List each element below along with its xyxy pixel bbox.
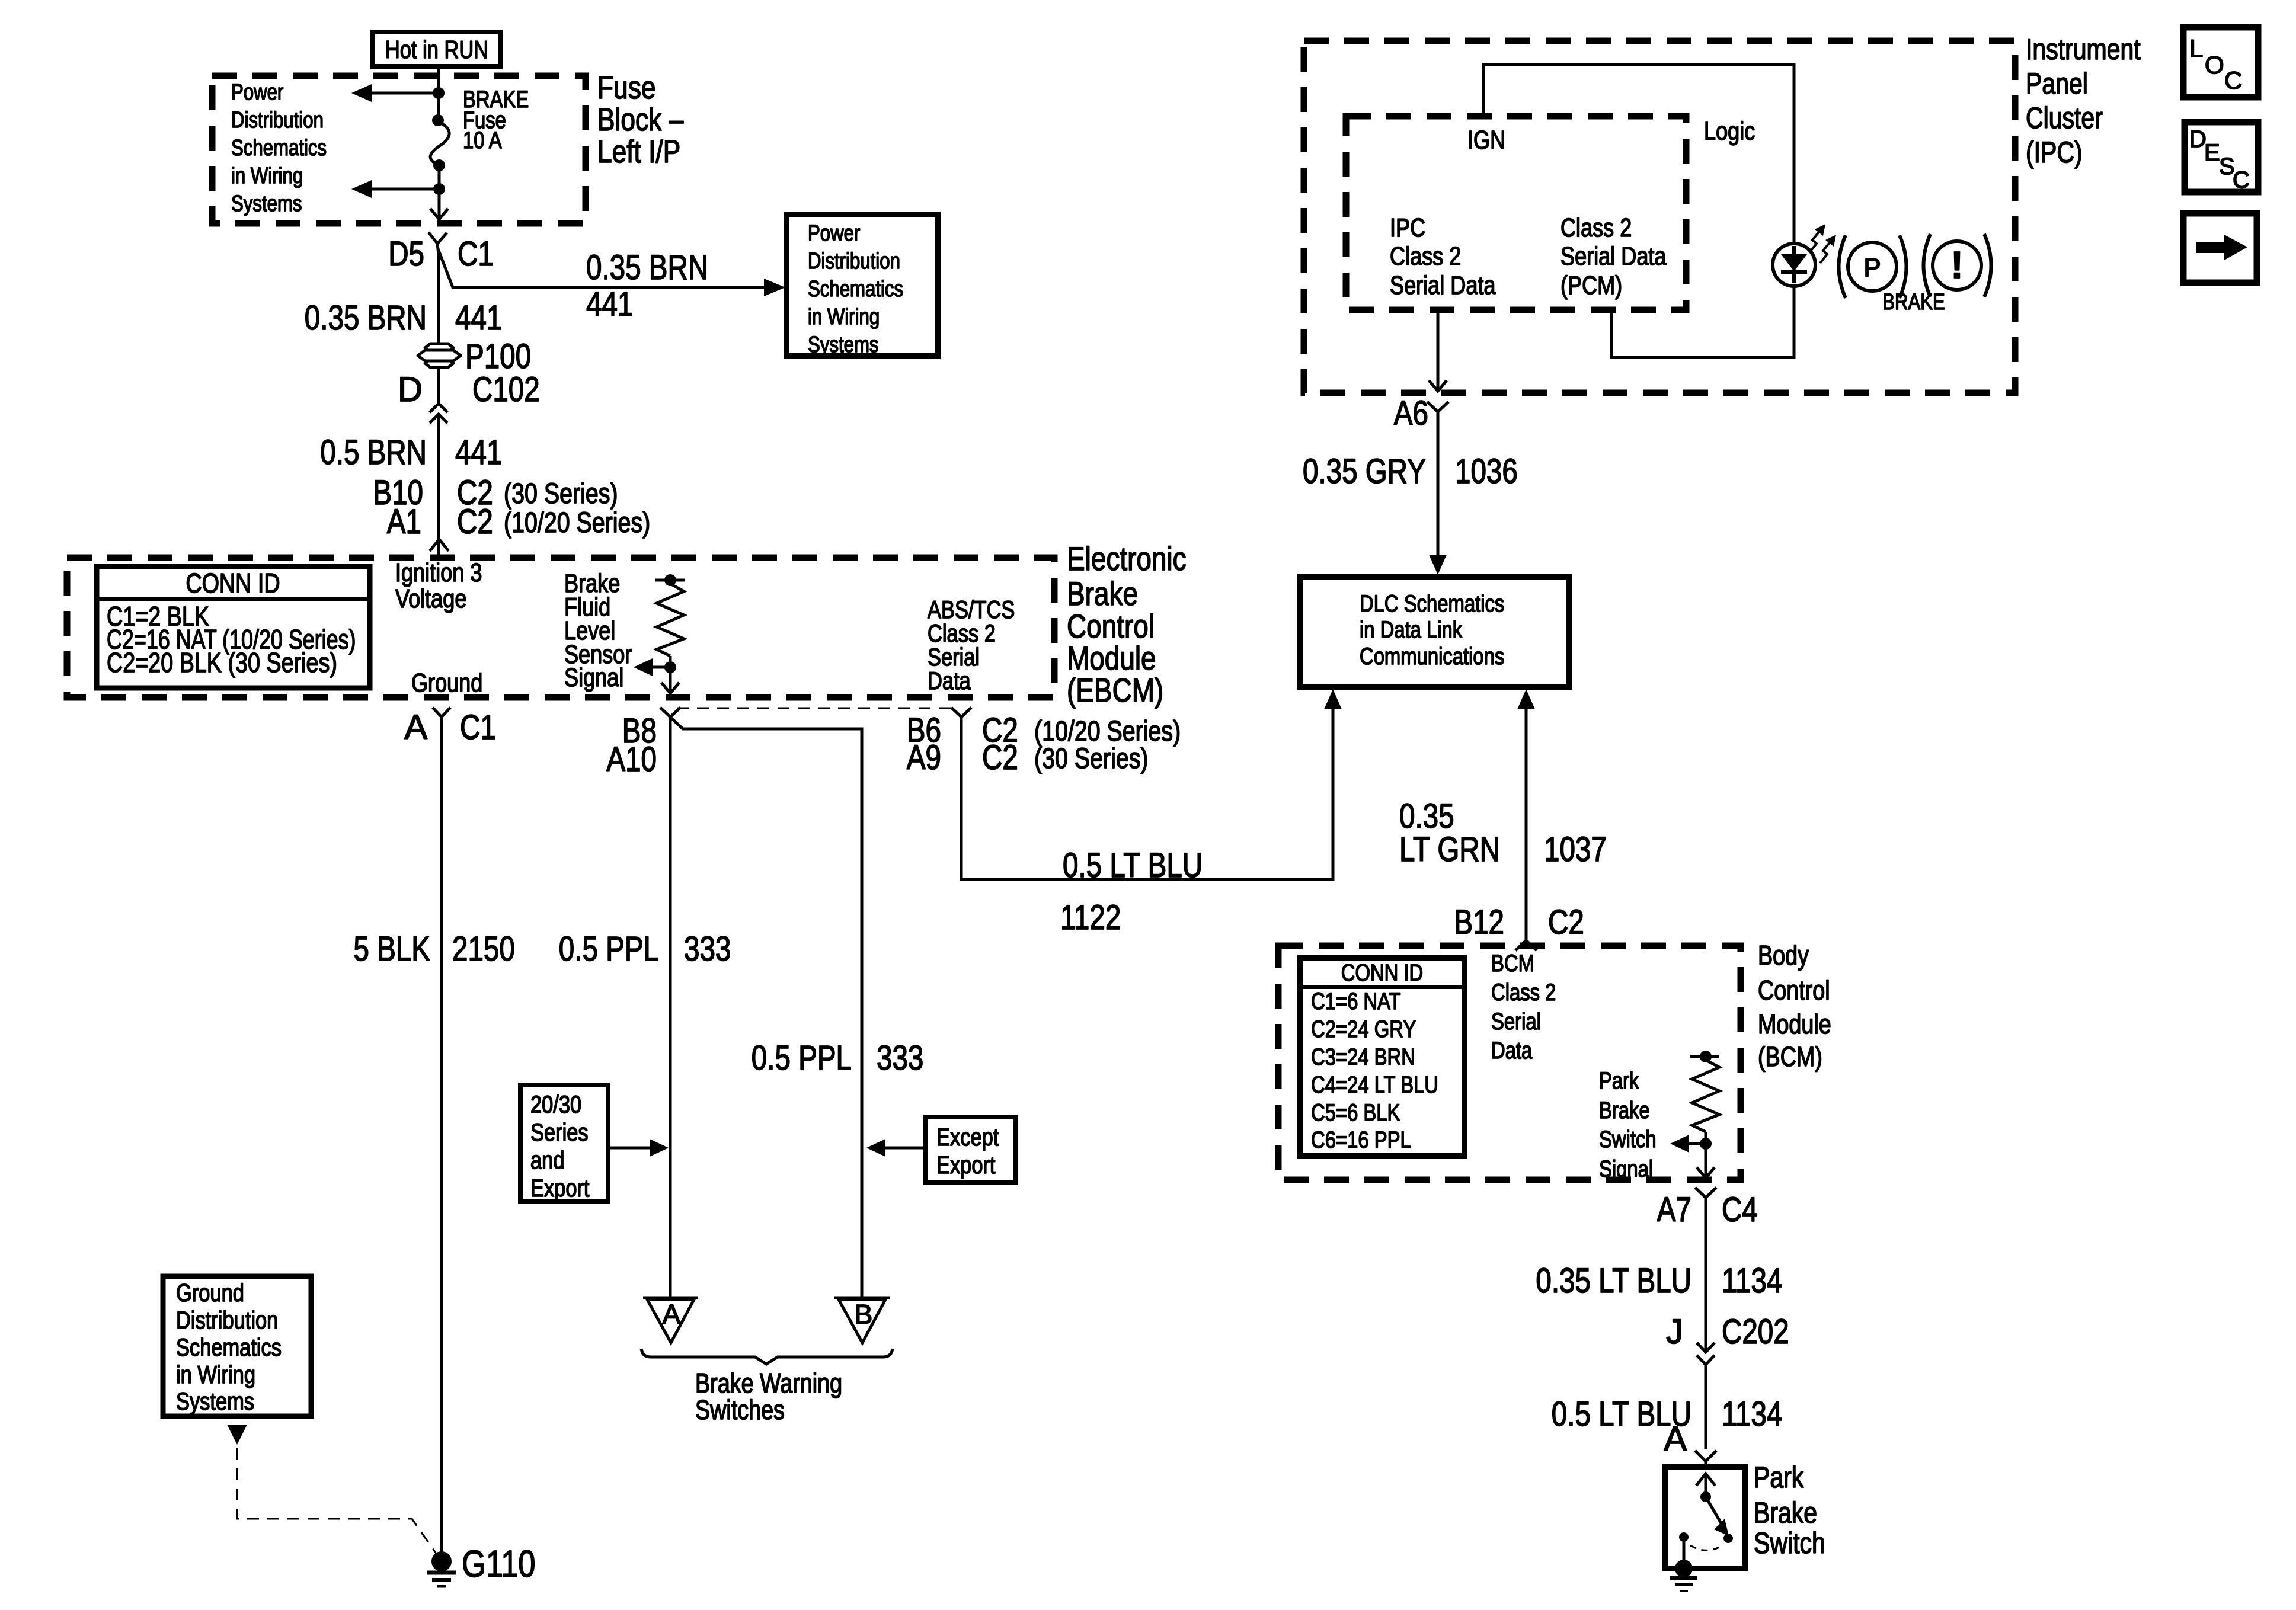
connector B8/A10 — [606, 708, 680, 779]
EBCM module label — [1067, 540, 1187, 709]
svg-text:Body: Body — [1758, 940, 1809, 971]
BCM dashed module box — [1278, 946, 1741, 1180]
svg-text:Fuse: Fuse — [597, 70, 656, 105]
svg-text:1037: 1037 — [1544, 830, 1607, 869]
svg-text:Electronic: Electronic — [1067, 540, 1187, 577]
Hot in RUN label box — [373, 32, 500, 66]
svg-text:Control: Control — [1758, 975, 1830, 1006]
connector C102 double chevron — [430, 404, 447, 423]
svg-text:B: B — [855, 1299, 873, 1330]
svg-text:G110: G110 — [462, 1542, 536, 1585]
svg-text:(BCM): (BCM) — [1758, 1041, 1822, 1072]
arrow from 20/30 box to wire A — [608, 1139, 669, 1157]
dashed ground reference path — [237, 1448, 439, 1558]
svg-text:Serial Data: Serial Data — [1560, 242, 1667, 271]
0.35 LT BLU 1134 labels — [1536, 1262, 1782, 1300]
Power Distribution Schematics note (inside fuse block) — [231, 80, 327, 216]
svg-text:D5: D5 — [388, 235, 424, 273]
svg-text:333: 333 — [684, 930, 731, 968]
svg-text:Brake: Brake — [1754, 1496, 1817, 1529]
connector A/C1 (ground) — [404, 708, 495, 747]
B10 C2 (30 Series) labels — [373, 473, 618, 512]
svg-text:Systems: Systems — [231, 191, 302, 216]
svg-text:Switch: Switch — [1599, 1126, 1657, 1153]
svg-text:DLC Schematics: DLC Schematics — [1360, 591, 1504, 617]
wire A6 to DLC (0.35 GRY 1036) — [1429, 412, 1447, 575]
svg-text:Export: Export — [530, 1174, 590, 1202]
svg-text:0.35 LT BLU: 0.35 LT BLU — [1536, 1262, 1691, 1300]
svg-text:LT GRN: LT GRN — [1399, 830, 1500, 869]
svg-text:and: and — [530, 1146, 565, 1174]
svg-text:A6: A6 — [1394, 394, 1428, 433]
switch closed-position contact — [1679, 1532, 1689, 1566]
svg-text:A7: A7 — [1657, 1190, 1691, 1229]
svg-text:C2=24 GRY: C2=24 GRY — [1311, 1016, 1416, 1042]
svg-text:C3=24 BRN: C3=24 BRN — [1311, 1044, 1415, 1070]
park brake switch signal arrow — [1670, 1135, 1706, 1153]
svg-text:0.5 PPL: 0.5 PPL — [752, 1039, 852, 1077]
svg-text:Hot in RUN: Hot in RUN — [385, 36, 488, 63]
svg-text:Distribution: Distribution — [808, 249, 900, 274]
svg-text:O: O — [2205, 51, 2224, 79]
0.5 BRN 441 labels — [320, 433, 502, 472]
svg-text:C6=16 PPL: C6=16 PPL — [1311, 1127, 1411, 1153]
20/30 Series and Export box — [520, 1085, 608, 1202]
svg-text:1134: 1134 — [1722, 1395, 1782, 1433]
svg-text:C4: C4 — [1722, 1190, 1758, 1229]
branch wire to switch B — [671, 718, 862, 1299]
wire from Hot in RUN into fuse block — [437, 66, 440, 119]
svg-text:C1: C1 — [460, 708, 496, 747]
arrow to power distribution (upper) — [351, 84, 439, 102]
arrow down to EBCM edge — [661, 667, 679, 693]
svg-text:in Wiring: in Wiring — [176, 1361, 255, 1388]
svg-text:D: D — [398, 370, 423, 409]
svg-text:Signal: Signal — [564, 663, 623, 692]
LED emission arrows — [1809, 224, 1836, 263]
svg-text:Switch: Switch — [1754, 1526, 1825, 1560]
svg-text:Class 2: Class 2 — [1390, 242, 1461, 271]
0.5 PPL 333 labels (wire B) — [752, 1039, 924, 1077]
0.35 BRN 441 wire labels — [305, 299, 503, 337]
connector B6/A9 — [907, 708, 1181, 777]
svg-text:A9: A9 — [907, 738, 941, 777]
P100 grommet connector — [418, 337, 531, 376]
fuse BRAKE 10A symbol — [430, 114, 449, 171]
svg-text:(10/20 Series): (10/20 Series) — [504, 507, 650, 539]
svg-text:Brake: Brake — [1067, 575, 1138, 612]
junction node (top) — [433, 87, 445, 99]
switch pivot and blade — [1700, 1491, 1733, 1543]
svg-text:0.35 GRY: 0.35 GRY — [1303, 452, 1426, 491]
svg-text:Serial: Serial — [1491, 1009, 1541, 1035]
svg-text:0.35 BRN: 0.35 BRN — [586, 248, 708, 287]
sensor signal arrow — [634, 658, 670, 676]
svg-text:C2: C2 — [457, 502, 493, 541]
0.5 LT BLU 1122 labels — [1060, 846, 1203, 937]
svg-text:0.5 LT BLU: 0.5 LT BLU — [1063, 846, 1203, 885]
Fuse Block module label — [597, 70, 683, 169]
park brake telltale ((P)) — [1839, 235, 1907, 298]
svg-text:10 A: 10 A — [463, 127, 502, 153]
svg-text:L: L — [2189, 34, 2203, 62]
svg-text:Instrument: Instrument — [2026, 33, 2141, 66]
svg-text:Systems: Systems — [176, 1387, 254, 1415]
svg-text:2150: 2150 — [452, 930, 515, 968]
5 BLK 2150 labels — [353, 930, 514, 968]
svg-text:(30 Series): (30 Series) — [504, 478, 618, 510]
svg-text:Module: Module — [1758, 1009, 1831, 1039]
connector chevron into EBCM — [430, 539, 449, 551]
svg-text:in Wiring: in Wiring — [231, 164, 303, 188]
branch wire to power distribution box — [438, 249, 785, 296]
connector A (park brake switch) — [1664, 1420, 1716, 1469]
switch ground node — [1675, 1560, 1693, 1577]
ground G110 symbol — [427, 1551, 456, 1586]
svg-text:20/30: 20/30 — [530, 1090, 581, 1118]
svg-text:Distribution: Distribution — [231, 108, 324, 133]
Fuse Block - Left I/P dashed box — [212, 76, 586, 223]
svg-text:Class 2: Class 2 — [1491, 980, 1556, 1006]
svg-text:B12: B12 — [1454, 903, 1504, 942]
Except Export box — [926, 1117, 1015, 1183]
svg-text:Power: Power — [231, 80, 284, 105]
svg-text:CONN ID: CONN ID — [186, 568, 280, 598]
svg-text:C1: C1 — [458, 235, 494, 273]
svg-text:Export: Export — [936, 1151, 996, 1179]
svg-text:C2=20 BLK (30 Series): C2=20 BLK (30 Series) — [107, 647, 337, 678]
wire from PCM to LED branch — [1611, 286, 1794, 357]
wire below P100 — [437, 368, 440, 404]
svg-text:(30 Series): (30 Series) — [1034, 743, 1149, 774]
svg-text:in Data Link: in Data Link — [1360, 617, 1463, 643]
svg-text:C4=24 LT BLU: C4=24 LT BLU — [1311, 1072, 1438, 1098]
svg-text:Ground: Ground — [176, 1279, 244, 1307]
wire B12 to DLC (0.35 LT GRN 1037) — [1517, 689, 1535, 940]
svg-text:C2: C2 — [1548, 903, 1584, 942]
wire down from D5/C1 — [437, 255, 440, 344]
park brake pull-up resistor — [1690, 1051, 1719, 1150]
svg-text:333: 333 — [877, 1039, 923, 1077]
svg-text:Cluster: Cluster — [2026, 101, 2103, 135]
BCM CONN ID table — [1300, 958, 1464, 1156]
brake warning telltale ((!)) — [1924, 234, 1991, 297]
wire A (brake warning switch A) — [669, 717, 672, 1299]
arrow legend box — [2183, 213, 2257, 283]
wire B6/A9 to DLC (0.5 LT BLU 1122) — [961, 689, 1342, 879]
0.35 LT GRN 1037 labels — [1399, 797, 1607, 869]
svg-text:Ground: Ground — [411, 668, 482, 697]
svg-text:C202: C202 — [1722, 1313, 1789, 1351]
svg-text:Panel: Panel — [2026, 67, 2088, 100]
svg-text:Communications: Communications — [1360, 644, 1504, 670]
svg-text:Left I/P: Left I/P — [597, 134, 680, 169]
wire below fuse — [438, 165, 441, 217]
svg-text:Serial Data: Serial Data — [1390, 271, 1496, 300]
svg-text:441: 441 — [455, 299, 502, 337]
svg-text:(IPC): (IPC) — [2026, 136, 2083, 169]
svg-text:441: 441 — [455, 433, 502, 472]
svg-text:BRAKE: BRAKE — [1882, 290, 1945, 315]
BCM module label — [1758, 940, 1831, 1072]
svg-text:Data: Data — [1491, 1038, 1533, 1064]
svg-text:C: C — [2224, 66, 2242, 94]
svg-text:Brake: Brake — [1599, 1097, 1650, 1124]
Brake Warning Switches label — [695, 1368, 842, 1425]
Power Distribution Schematics box — [786, 215, 938, 357]
svg-text:A: A — [1664, 1420, 1687, 1458]
svg-text:C: C — [2233, 167, 2250, 193]
svg-text:!: ! — [1950, 244, 1963, 286]
svg-text:0.5 PPL: 0.5 PPL — [559, 930, 659, 968]
IPC dashed module box — [1304, 41, 2015, 393]
connector D5/C1 — [428, 232, 447, 255]
wire A7 to C202 (0.35 LT BLU 1134) — [1705, 1198, 1707, 1352]
connector A6 — [1394, 394, 1448, 433]
A6 wire exit from IPC — [1429, 310, 1447, 391]
EBCM dashed module box — [67, 558, 1054, 697]
svg-text:0.5 BRN: 0.5 BRN — [320, 433, 427, 472]
svg-text:P: P — [1863, 253, 1881, 282]
arrowhead down at fuse block exit — [430, 209, 448, 219]
Park Brake Switch label — [1754, 1461, 1825, 1560]
svg-text:Schematics: Schematics — [231, 136, 327, 161]
switch travel dashed arc — [1690, 1545, 1723, 1550]
svg-text:(PCM): (PCM) — [1560, 271, 1622, 300]
ABS/TCS Class 2 Serial Data pin label — [928, 596, 1015, 694]
IPC Class 2 Serial Data label — [1390, 213, 1496, 300]
D / C102 labels — [398, 370, 540, 409]
BCM Class 2 Serial Data pin label — [1491, 950, 1556, 1064]
svg-text:1036: 1036 — [1455, 452, 1518, 491]
switch common contact wire with up arrow — [1696, 1474, 1715, 1497]
svg-text:A1: A1 — [387, 502, 421, 541]
svg-text:Ignition 3: Ignition 3 — [395, 558, 482, 587]
svg-text:A: A — [404, 708, 427, 747]
Ground Distribution Schematics box — [163, 1276, 311, 1416]
IPC module label — [2026, 33, 2141, 169]
IGN to logic loop wire — [1483, 65, 1794, 244]
wire C202 to park brake switch (0.5 LT BLU 1134) — [1705, 1365, 1707, 1449]
connector A7/C4 — [1657, 1188, 1758, 1229]
svg-text:1134: 1134 — [1722, 1262, 1782, 1300]
svg-text:Schematics: Schematics — [176, 1333, 282, 1361]
Park Brake Switch Signal pin label — [1599, 1068, 1657, 1182]
svg-text:Data: Data — [928, 667, 971, 694]
svg-text:5 BLK: 5 BLK — [353, 930, 430, 968]
brake telltale LED — [1773, 244, 1815, 286]
off-page triangle B — [834, 1298, 890, 1343]
svg-text:Block –: Block – — [597, 102, 683, 137]
0.5 LT BLU 1134 labels — [1552, 1395, 1783, 1433]
svg-text:Power: Power — [808, 221, 861, 246]
svg-text:C2: C2 — [982, 738, 1018, 777]
Class 2 Serial Data (PCM) label — [1560, 213, 1667, 300]
svg-text:1122: 1122 — [1060, 898, 1121, 937]
svg-text:C102: C102 — [472, 370, 540, 409]
svg-text:Systems: Systems — [808, 332, 879, 357]
off-page triangle A — [643, 1298, 698, 1343]
brake fluid level sensor resistor — [655, 574, 685, 673]
thin dashed 10/20-series boundary — [677, 708, 951, 709]
ground wire 5 BLK 2150 — [440, 717, 443, 1562]
svg-text:0.35 BRN: 0.35 BRN — [305, 299, 427, 337]
LOC legend box — [2183, 27, 2258, 97]
junction node (lower) — [433, 183, 445, 195]
svg-text:Except: Except — [936, 1123, 999, 1151]
triangle pointer below ground distribution box — [227, 1425, 247, 1445]
arrow down to BCM edge — [1697, 1144, 1715, 1178]
svg-text:Series: Series — [530, 1118, 589, 1146]
IPC logic inner dashed box — [1346, 116, 1686, 310]
svg-text:Park: Park — [1754, 1461, 1804, 1494]
connector J/C202 double chevron — [1666, 1313, 1789, 1365]
svg-text:C5=6 BLK: C5=6 BLK — [1311, 1100, 1400, 1126]
DESC legend box — [2185, 122, 2258, 193]
Park Brake Switch box — [1665, 1467, 1745, 1569]
ground symbol below park brake switch — [1670, 1578, 1697, 1591]
svg-text:Voltage: Voltage — [395, 584, 466, 613]
connector B12/C2 — [1454, 903, 1584, 950]
0.35 GRY 1036 labels — [1303, 452, 1518, 491]
svg-text:Distribution: Distribution — [176, 1306, 278, 1334]
svg-text:Park: Park — [1599, 1068, 1639, 1094]
brace under switches — [641, 1349, 893, 1364]
svg-text:A10: A10 — [606, 740, 657, 779]
svg-text:C1=6 NAT: C1=6 NAT — [1311, 988, 1401, 1014]
A1 C2 (10/20 Series) labels — [387, 502, 650, 541]
svg-text:A: A — [663, 1299, 681, 1330]
svg-text:Signal: Signal — [1599, 1156, 1653, 1182]
arrow to power distribution (lower) — [351, 180, 439, 198]
DLC Schematics box — [1300, 577, 1569, 687]
svg-text:Logic: Logic — [1704, 117, 1755, 146]
svg-text:IPC: IPC — [1390, 213, 1425, 242]
svg-text:BCM: BCM — [1491, 950, 1534, 977]
0.5 PPL 333 labels (wire A) — [559, 930, 731, 968]
svg-text:in Wiring: in Wiring — [808, 305, 880, 329]
svg-text:J: J — [1666, 1313, 1683, 1351]
BRAKE Fuse 10A label — [463, 87, 529, 153]
svg-text:Class 2: Class 2 — [1560, 213, 1632, 242]
svg-text:(EBCM): (EBCM) — [1067, 671, 1163, 709]
Ignition 3 Voltage pin label — [395, 558, 482, 613]
svg-text:Switches: Switches — [695, 1394, 785, 1425]
svg-text:IGN: IGN — [1467, 126, 1505, 155]
svg-text:CONN ID: CONN ID — [1341, 960, 1424, 986]
arrow from Except Export box to wire B — [866, 1139, 926, 1157]
0.35 BRN 441 branch labels — [586, 248, 708, 324]
Brake Fluid Level Sensor Signal pin label — [564, 569, 632, 692]
EBCM CONN ID table — [97, 566, 370, 688]
svg-text:441: 441 — [586, 285, 633, 324]
svg-text:Schematics: Schematics — [808, 277, 903, 302]
svg-text:E: E — [2204, 140, 2220, 166]
